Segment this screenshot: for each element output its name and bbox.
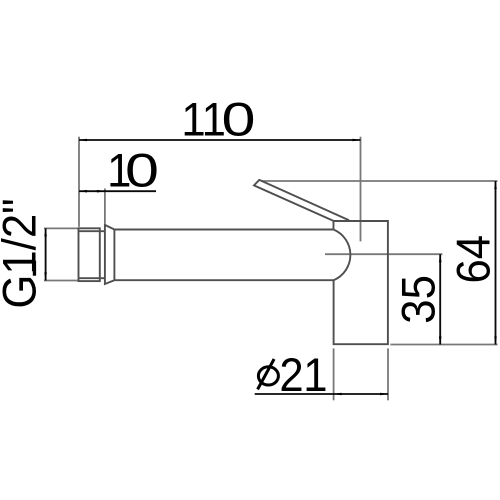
svg-text:1: 1 bbox=[303, 348, 327, 401]
svg-text:2: 2 bbox=[279, 348, 303, 401]
svg-text:0: 0 bbox=[222, 93, 256, 146]
svg-text:G1/2": G1/2" bbox=[0, 198, 46, 308]
svg-text:0: 0 bbox=[125, 144, 159, 197]
svg-text:35: 35 bbox=[392, 275, 445, 324]
svg-text:64: 64 bbox=[447, 235, 500, 284]
